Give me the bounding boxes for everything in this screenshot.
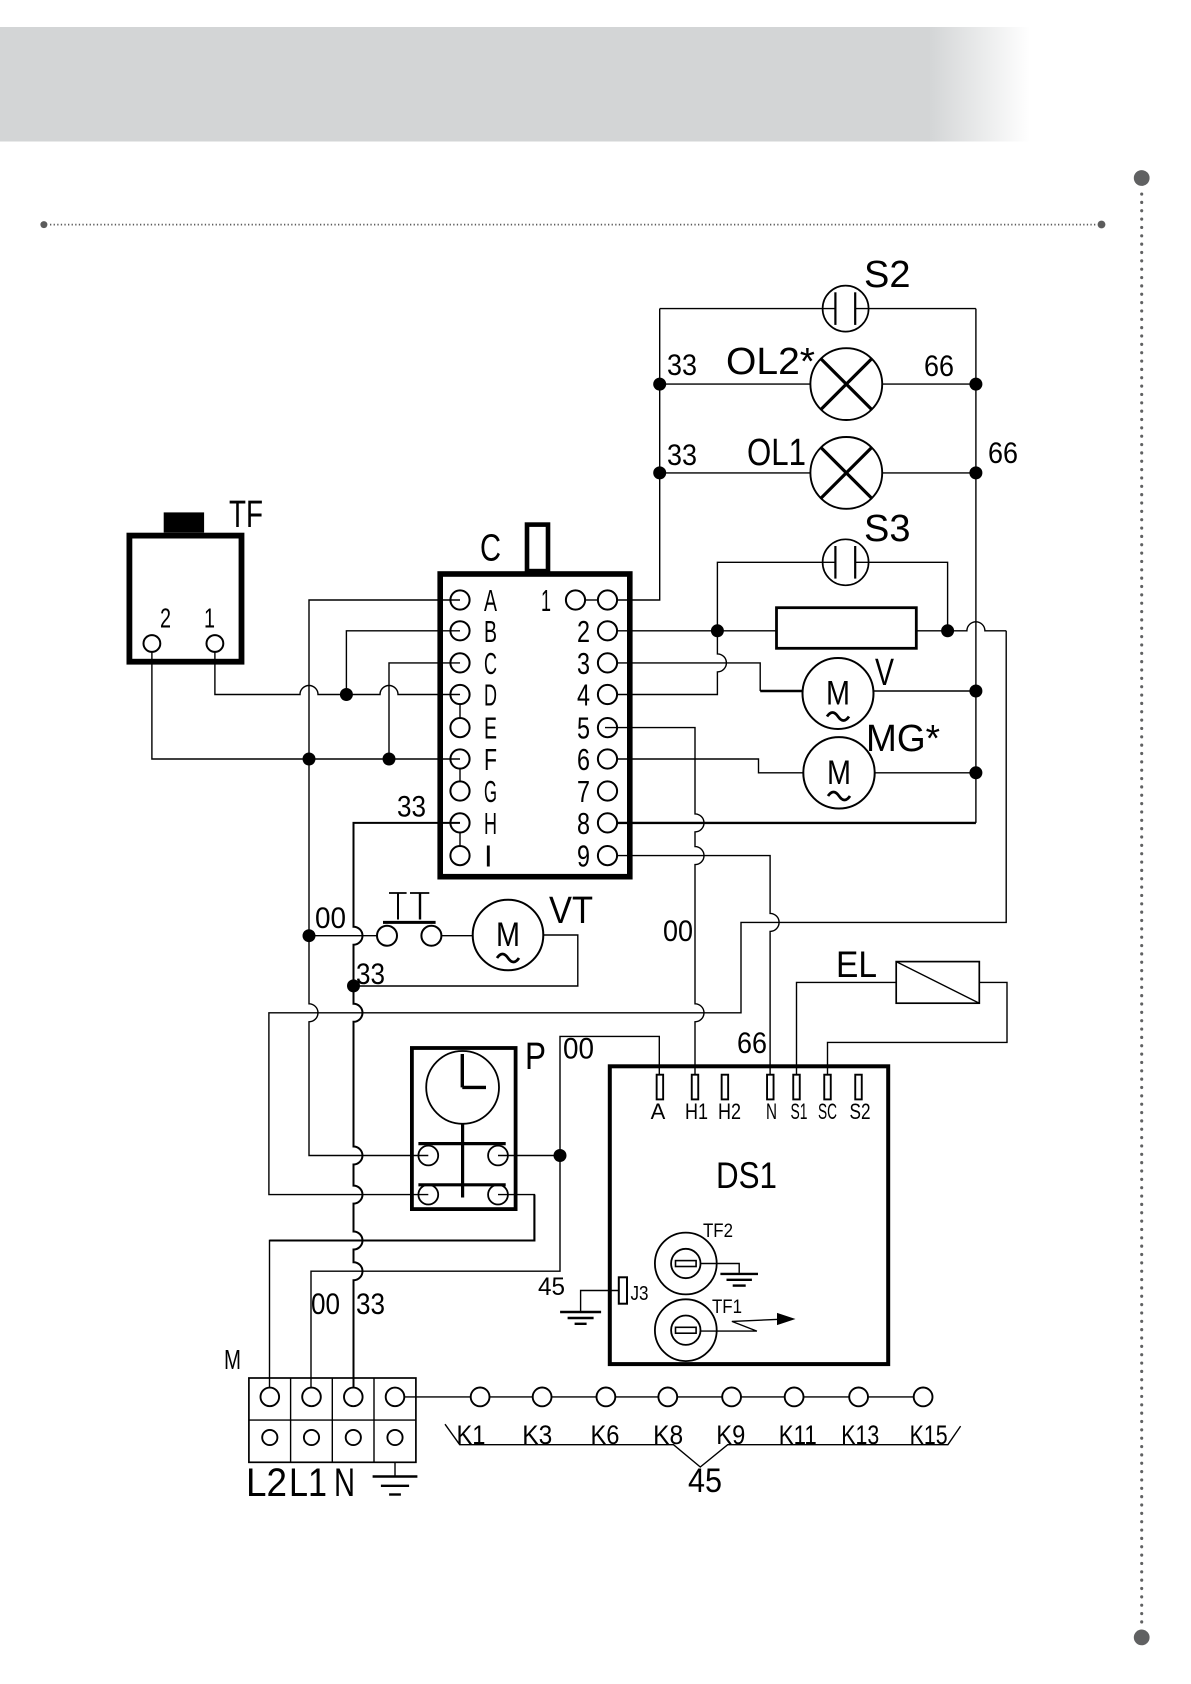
svg-text:K1: K1 — [457, 1420, 486, 1450]
svg-text:A: A — [484, 583, 497, 618]
svg-text:OL2*: OL2* — [726, 341, 815, 383]
svg-text:D: D — [484, 678, 497, 713]
svg-text:4: 4 — [577, 678, 590, 713]
svg-text:S3: S3 — [864, 508, 910, 550]
svg-text:00: 00 — [563, 1033, 594, 1066]
svg-text:7: 7 — [577, 774, 590, 809]
svg-text:OL1: OL1 — [747, 432, 806, 474]
svg-text:K6: K6 — [591, 1420, 620, 1450]
svg-text:A: A — [651, 1099, 666, 1124]
svg-text:K9: K9 — [716, 1420, 745, 1450]
svg-text:N: N — [334, 1461, 355, 1505]
svg-text:I: I — [484, 839, 493, 874]
svg-text:S2: S2 — [850, 1099, 871, 1124]
svg-text:V: V — [875, 652, 894, 694]
svg-text:H: H — [484, 806, 497, 841]
svg-text:L2: L2 — [246, 1461, 287, 1505]
svg-text:S1: S1 — [791, 1099, 808, 1124]
svg-text:2: 2 — [577, 614, 590, 649]
svg-text:1: 1 — [541, 583, 551, 618]
svg-text:TF: TF — [229, 494, 263, 536]
svg-text:66: 66 — [924, 350, 954, 383]
svg-text:33: 33 — [397, 791, 426, 824]
svg-text:H2: H2 — [718, 1099, 741, 1124]
svg-text:J3: J3 — [631, 1283, 649, 1305]
svg-text:K3: K3 — [522, 1420, 552, 1450]
svg-text:K13: K13 — [841, 1420, 879, 1450]
svg-text:L1: L1 — [289, 1461, 327, 1505]
svg-text:M: M — [496, 916, 520, 954]
svg-text:6: 6 — [577, 742, 590, 777]
svg-text:P: P — [525, 1036, 546, 1078]
svg-text:TF1: TF1 — [712, 1296, 742, 1318]
svg-text:66: 66 — [737, 1027, 767, 1060]
svg-text:45: 45 — [688, 1462, 722, 1500]
svg-text:3: 3 — [577, 646, 590, 681]
svg-text:2: 2 — [160, 603, 171, 634]
svg-text:B: B — [484, 614, 497, 649]
svg-text:33: 33 — [667, 439, 697, 472]
svg-text:K11: K11 — [779, 1420, 817, 1450]
svg-text:8: 8 — [577, 806, 590, 841]
svg-text:M: M — [827, 754, 851, 792]
svg-text:33: 33 — [356, 1288, 385, 1321]
svg-text:66: 66 — [988, 437, 1018, 470]
svg-text:C: C — [480, 528, 501, 570]
svg-text:33: 33 — [667, 349, 697, 382]
svg-text:MG*: MG* — [866, 718, 940, 760]
svg-text:K15: K15 — [910, 1420, 948, 1450]
svg-text:33: 33 — [356, 958, 385, 991]
svg-text:SC: SC — [818, 1099, 837, 1124]
svg-text:VT: VT — [549, 890, 593, 932]
svg-text:5: 5 — [577, 711, 590, 746]
svg-text:DS1: DS1 — [716, 1155, 777, 1196]
svg-text:N: N — [766, 1099, 777, 1124]
svg-text:F: F — [484, 742, 497, 777]
svg-text:G: G — [484, 774, 497, 809]
svg-text:00: 00 — [315, 902, 346, 935]
svg-text:C: C — [484, 646, 497, 681]
svg-text:00: 00 — [663, 915, 693, 948]
svg-text:M: M — [826, 675, 850, 713]
svg-text:45: 45 — [538, 1273, 565, 1301]
svg-text:TF2: TF2 — [703, 1220, 733, 1242]
svg-text:00: 00 — [311, 1288, 340, 1321]
svg-text:M: M — [224, 1344, 241, 1375]
svg-text:EL: EL — [836, 944, 877, 985]
svg-text:E: E — [484, 711, 497, 746]
svg-text:H1: H1 — [685, 1099, 708, 1124]
svg-text:9: 9 — [577, 839, 590, 874]
svg-text:1: 1 — [204, 603, 215, 634]
svg-text:K8: K8 — [653, 1420, 683, 1450]
svg-text:S2: S2 — [864, 254, 910, 296]
